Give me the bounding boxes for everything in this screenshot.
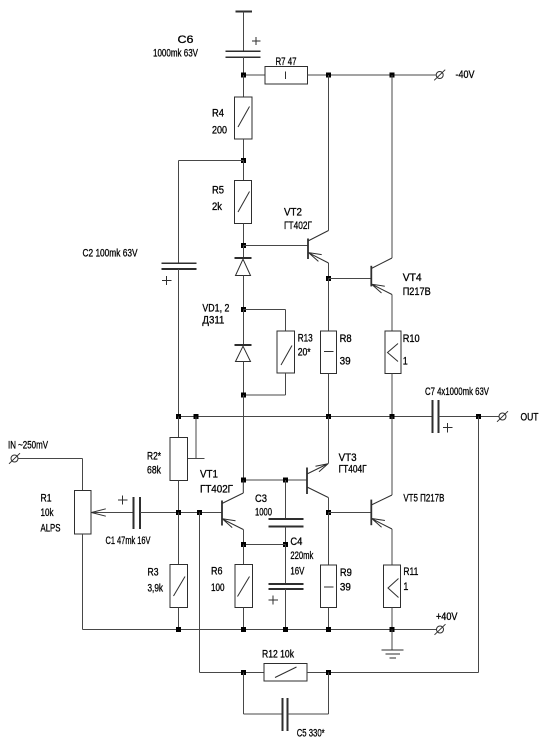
ground — [382, 630, 404, 659]
wire node to C2 — [179, 160, 244, 162]
svg-text:C5 330*: C5 330* — [297, 728, 325, 740]
svg-text:20*: 20* — [298, 347, 312, 359]
capacitor C7 — [433, 400, 453, 433]
wire C2 top lead — [178, 161, 180, 264]
resistor R6 — [235, 565, 253, 608]
svg-text:VT3: VT3 — [339, 452, 357, 464]
transistor VT4 — [371, 258, 392, 295]
svg-text:ГТ402Г: ГТ402Г — [200, 484, 233, 496]
svg-text:VT5 П217В: VT5 П217В — [403, 493, 444, 505]
svg-text:ALPS: ALPS — [41, 523, 61, 535]
svg-text:Д311: Д311 — [202, 315, 224, 327]
wire VT4 emitter to R10 — [391, 295, 393, 332]
svg-text:VT4: VT4 — [403, 272, 422, 284]
wire diode chain to VT1 collector node (crosses bus) — [243, 395, 245, 480]
svg-text:C7 4x1000mk 63V: C7 4x1000mk 63V — [425, 386, 489, 398]
diode VD2 — [235, 310, 252, 396]
svg-text:1000: 1000 — [255, 507, 272, 519]
svg-text:200: 200 — [212, 125, 227, 137]
svg-text:1000mk 63V: 1000mk 63V — [153, 48, 198, 60]
wire emitter node to C4 node — [244, 544, 286, 546]
wire -40V rail right — [308, 74, 437, 76]
svg-text:1: 1 — [403, 581, 408, 593]
wire C5 right loop — [288, 673, 329, 715]
node bus/R2 — [176, 414, 181, 419]
node VT1 collector — [241, 478, 246, 483]
svg-text:R11: R11 — [403, 566, 418, 578]
wire R2 to base node — [178, 481, 180, 513]
wire VT4 collector — [391, 75, 393, 258]
svg-text:R8: R8 — [340, 333, 352, 345]
resistor R12 — [264, 664, 307, 682]
svg-text:16V: 16V — [290, 566, 304, 578]
resistor R8 — [321, 331, 337, 374]
resistor R13 slash — [281, 346, 292, 366]
wire R13 bottom — [244, 373, 286, 395]
resistor R4 — [235, 97, 253, 139]
node VT4 collector rail — [390, 73, 395, 78]
wire R4 node to R5 — [243, 161, 245, 181]
svg-text:2k: 2k — [212, 201, 222, 213]
wire C4 top lead — [285, 545, 287, 585]
wire VT5 emitter to R11 — [391, 529, 393, 565]
svg-text:C3: C3 — [255, 493, 267, 505]
node bus/tap — [194, 414, 199, 419]
svg-text:R2*: R2* — [147, 451, 162, 463]
node bus/R6 — [241, 627, 246, 632]
wire R12 right to feedback column — [307, 672, 479, 674]
node R4/R5/C2 — [241, 158, 246, 163]
svg-text:R5: R5 — [212, 185, 224, 197]
wire R3 to bus — [178, 608, 180, 630]
wire node to R6 — [243, 545, 245, 565]
wire C1 to VT1 base — [140, 512, 222, 514]
svg-text:OUT: OUT — [521, 412, 539, 424]
svg-text:C2 100mk 63V: C2 100mk 63V — [83, 248, 138, 260]
svg-text:ГТ402Г: ГТ402Г — [284, 220, 312, 232]
resistor R7 — [265, 67, 308, 85]
wire R5 to node — [243, 224, 245, 246]
resistor R3 — [170, 565, 188, 608]
resistor R12 slash — [275, 667, 297, 678]
svg-text:R3: R3 — [148, 567, 159, 579]
wire feedback column — [199, 513, 201, 673]
capacitor C6 — [226, 37, 261, 57]
svg-text:39: 39 — [340, 582, 351, 594]
capacitor C4 — [269, 584, 304, 605]
wire VT3 collector down — [327, 498, 329, 513]
wire R9 to bus — [328, 608, 330, 630]
potentiometer R1 wiper arrow — [92, 509, 106, 516]
wire R4 to node — [243, 139, 245, 161]
resistor R10 — [385, 331, 401, 374]
wire C4 to bus — [285, 589, 287, 630]
capacitor C3 — [269, 519, 304, 527]
svg-text:10k: 10k — [41, 507, 54, 519]
wire R1 to bottom bus — [82, 534, 84, 630]
wire R1 wiper to C1 — [92, 512, 134, 514]
wire bus to R2 — [178, 417, 180, 438]
terminal +40V — [435, 624, 446, 635]
svg-text:C4: C4 — [290, 536, 302, 548]
wire VT1 collector to VT3 base — [244, 479, 308, 481]
resistor R5 slash — [238, 192, 250, 213]
transistor VT5 — [371, 495, 392, 529]
wire node to R9 — [327, 513, 329, 566]
node VT2e/R8/VT4 base — [326, 276, 331, 281]
wire R2 tap stub — [188, 417, 205, 459]
svg-text:R10: R10 — [403, 333, 420, 345]
node C3 top — [283, 478, 288, 483]
transistor VT2 — [308, 231, 329, 264]
resistor R9 — [321, 565, 337, 608]
node OUT/feedback — [476, 414, 481, 419]
wire C6 to node — [243, 57, 245, 75]
resistor R11 — [384, 565, 401, 608]
wire VT2 base — [244, 245, 309, 247]
output bus — [179, 416, 433, 418]
node bus/R11/ground — [390, 627, 395, 632]
svg-text:-40V: -40V — [456, 69, 476, 81]
svg-text:VD1, 2: VD1, 2 — [202, 303, 229, 315]
resistor R13 — [277, 331, 295, 373]
wire R6 to bus — [243, 608, 245, 630]
node bus/C4 — [283, 627, 288, 632]
wire R8 to bus — [328, 374, 330, 417]
wire feedback right column — [478, 417, 480, 673]
wire VT2 collector — [328, 75, 330, 231]
wire VT2 emitter down — [328, 263, 330, 279]
svg-text:1: 1 — [403, 356, 408, 368]
wire VT5 base — [328, 512, 371, 514]
wire IN to R1 — [18, 459, 83, 491]
node bus/VT3 emitter — [326, 414, 331, 419]
svg-text:R13: R13 — [298, 333, 313, 345]
wire C3 top lead — [285, 480, 287, 519]
node bus/R10/VT5 — [390, 414, 395, 419]
svg-text:100: 100 — [211, 582, 225, 594]
capacitor C2 — [162, 263, 197, 285]
node VT2 collector rail — [326, 73, 331, 78]
wire node to R4 — [243, 75, 245, 97]
wire -40V rail left — [244, 74, 266, 76]
svg-text:R9: R9 — [340, 567, 352, 579]
wire R10 to bus — [391, 374, 393, 417]
transistor VT3 — [307, 464, 328, 498]
wire C2 to bus — [178, 269, 180, 417]
node bus/R3 — [176, 627, 181, 632]
node R12 right / C5 — [326, 670, 331, 675]
node R12 left / C5 — [241, 670, 246, 675]
node R5/VD1/VT2 base — [241, 243, 246, 248]
wire feedback bottom left — [200, 672, 265, 674]
terminal -40V — [434, 70, 445, 81]
svg-text:R4: R4 — [212, 108, 224, 120]
node VT1e/R6/C4 wire — [241, 542, 246, 547]
resistor R4 slash — [238, 107, 250, 128]
svg-text:ГТ404Г: ГТ404Г — [339, 464, 367, 476]
resistor R1 potentiometer — [75, 491, 92, 535]
capacitor C1 — [118, 495, 140, 529]
svg-text:R7 47: R7 47 — [276, 56, 297, 68]
svg-text:220mk: 220mk — [290, 550, 313, 562]
node C3/C4 — [283, 542, 288, 547]
power rail top bar — [236, 11, 253, 13]
terminal IN — [9, 453, 20, 464]
svg-text:VT2: VT2 — [284, 207, 302, 219]
resistor R6 slash — [238, 577, 250, 597]
svg-text:R6: R6 — [211, 566, 223, 578]
svg-text:39: 39 — [340, 356, 351, 368]
svg-text:IN ~250mV: IN ~250mV — [8, 440, 48, 452]
diode VD1 — [235, 246, 252, 310]
wire VT5 collector up — [391, 417, 393, 496]
wire C5 left loop — [244, 673, 283, 715]
wire VT3 emitter up — [327, 417, 329, 464]
svg-text:68k: 68k — [147, 465, 161, 477]
svg-text:3,9k: 3,9k — [148, 583, 164, 595]
svg-text:+40V: +40V — [436, 611, 458, 623]
resistor R3 slash — [174, 577, 186, 597]
terminal OUT — [497, 411, 508, 422]
wire VT4 base — [329, 278, 372, 280]
capacitor C5 — [283, 698, 288, 731]
node C1/R2/R3 — [176, 510, 181, 515]
svg-text:C6: C6 — [178, 34, 194, 46]
wire R11 to bus — [391, 608, 393, 630]
svg-text:VT1: VT1 — [200, 469, 218, 481]
node VD2/R13 — [241, 393, 246, 398]
svg-text:П217В: П217В — [403, 286, 431, 298]
node base/feedback — [197, 510, 202, 515]
svg-text:R12 10k: R12 10k — [262, 649, 294, 661]
wire node to R8 — [328, 279, 330, 332]
bottom +40V bus — [83, 629, 437, 631]
node VT3c/R9/VT5 base — [326, 510, 331, 515]
svg-text:C1 47mk 16V: C1 47mk 16V — [106, 535, 151, 547]
svg-text:R1: R1 — [41, 493, 52, 505]
transistor VT1 — [222, 480, 243, 530]
node bus/R9 — [326, 627, 331, 632]
node C6/R7/R4 — [241, 73, 246, 78]
node VD1/VD2/R13 — [241, 307, 246, 312]
resistor R5 — [235, 181, 252, 224]
wire C3 bottom lead — [285, 527, 287, 545]
wire R2R3 column — [178, 513, 180, 565]
wire VT1 emitter down — [242, 530, 244, 545]
resistor R2 — [170, 438, 188, 481]
wire top bar to C6 — [243, 12, 245, 52]
wire C7 to OUT — [439, 416, 500, 418]
wire node to R13 top — [244, 310, 286, 332]
